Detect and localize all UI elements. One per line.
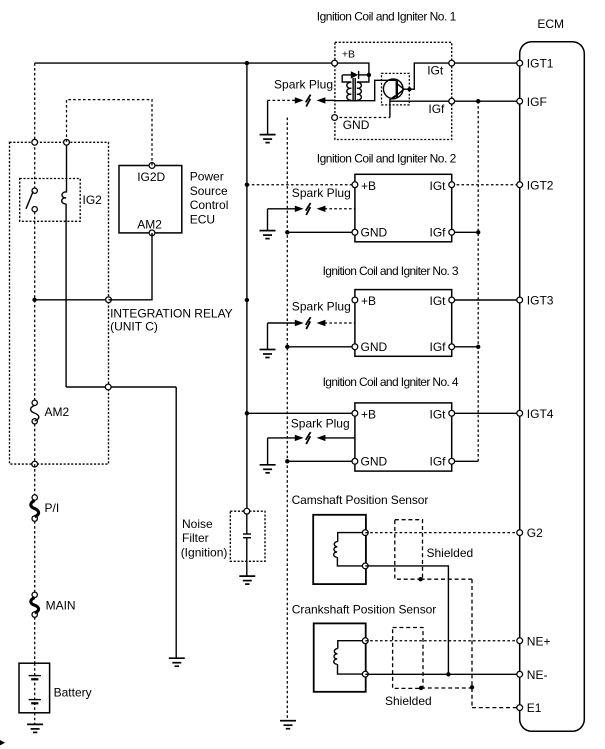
node junction diode cathode [367, 73, 371, 77]
wire IGF [452, 100, 520, 102]
pin crankshaft NE+ [362, 638, 368, 644]
igniter U3 box [355, 290, 452, 357]
wire GND2 [287, 231, 355, 233]
pin ECM E1 [517, 705, 523, 711]
svg-text:IG2D: IG2D [137, 170, 165, 184]
pin ECM NE- [517, 671, 523, 677]
fuse P/I [31, 495, 39, 522]
pin IG2D [149, 163, 155, 169]
igniter U2 box [355, 174, 452, 242]
node junction IGf3 [476, 345, 480, 349]
transistor Q1 [382, 73, 410, 105]
pin AM2 ECU [149, 230, 155, 236]
svg-text:E1: E1 [527, 701, 542, 715]
ground spark plug 3 [260, 350, 276, 358]
battery BAT [19, 663, 50, 713]
crankshaft pickup coil [334, 641, 366, 674]
ground spark plug 2 [260, 231, 276, 239]
svg-text:IGT4: IGT4 [527, 407, 554, 421]
pin +B igniter3 [352, 297, 358, 303]
svg-text:GND: GND [343, 118, 370, 132]
ground battery [27, 724, 43, 732]
svg-text:IGF: IGF [527, 95, 547, 109]
diode D1 [343, 71, 369, 79]
svg-text:GND: GND [361, 225, 388, 239]
pin IGt igniter3 [449, 297, 455, 303]
pin camshaft low [362, 563, 368, 569]
svg-text:IGT3: IGT3 [527, 294, 554, 308]
svg-text:Camshaft Position Sensor: Camshaft Position Sensor [292, 493, 429, 507]
svg-text:Spark Plug: Spark Plug [292, 186, 351, 200]
wire IGT1 [452, 62, 520, 64]
svg-text:Spark Plug: Spark Plug [292, 300, 351, 314]
wire G2 [365, 532, 519, 534]
svg-text:IG2: IG2 [83, 193, 103, 207]
label Noise Filter (Ignition) [181, 517, 228, 560]
relay switch SW [26, 188, 37, 212]
svg-text:Filter: Filter [182, 531, 209, 545]
svg-text:Ignition Coil and Igniter No.: Ignition Coil and Igniter No. 3 [323, 264, 459, 278]
svg-text:IGf: IGf [430, 225, 447, 239]
svg-text:IGt: IGt [430, 294, 447, 308]
wire +B2 [247, 184, 355, 186]
spark plug 2 [268, 186, 355, 231]
svg-text:ECM: ECM [537, 17, 564, 31]
wire secondary to spark plug [335, 80, 397, 100]
wire battery chain upper [34, 63, 36, 464]
wire IGf4 tail [452, 460, 479, 462]
wire IGT3 [452, 299, 520, 301]
igniter U1 box [335, 42, 452, 139]
svg-text:Power: Power [190, 170, 224, 184]
svg-text:NE+: NE+ [527, 634, 551, 648]
node junction GND4 [285, 459, 289, 463]
svg-text:Spark Plug: Spark Plug [291, 417, 350, 431]
pin IGf igniter3 [449, 344, 455, 350]
wire shield to E1 [421, 579, 520, 707]
node junction AM2 switch line [32, 298, 36, 302]
node junction GND3 [285, 345, 289, 349]
spark plug 3 [268, 300, 355, 350]
spark plug 1 [268, 78, 335, 135]
ground spark plug 4 [260, 465, 276, 473]
pin IGt igniter2 [449, 182, 455, 188]
svg-text:Ignition Coil and Igniter No.: Ignition Coil and Igniter No. 2 [317, 152, 457, 166]
wire battery feed top [35, 62, 335, 64]
svg-text:Shielded: Shielded [385, 694, 432, 708]
wire battery chain lower [34, 464, 36, 724]
node junction camshaft shield [418, 577, 422, 581]
crankshaft sensor box [314, 623, 366, 691]
wire IGT2 [452, 184, 520, 186]
svg-text:IGf: IGf [428, 102, 445, 116]
pin ECM IGF [517, 98, 523, 104]
pin ECM G2 [517, 530, 523, 536]
svg-text:IGt: IGt [430, 407, 447, 421]
svg-text:IGT2: IGT2 [527, 178, 554, 192]
pin noise filter [244, 508, 250, 514]
ground noise filter [239, 576, 255, 584]
relay inner box [20, 179, 80, 222]
wire AM2 relay internal [35, 299, 109, 301]
ground spark plug 1 [260, 135, 276, 143]
shield crankshaft [393, 628, 423, 689]
wire NE+ [365, 640, 519, 642]
wire +B4 [247, 412, 355, 414]
wire +B internal igniter1 [335, 63, 369, 75]
node junction GND2 [285, 230, 289, 234]
pin camshaft G2 [362, 530, 368, 536]
svg-text:+B: +B [361, 179, 376, 193]
pin GND igniter3 [352, 344, 358, 350]
node junction +B igniter3 [245, 298, 249, 302]
svg-text:Control: Control [190, 198, 229, 212]
svg-text:Noise: Noise [182, 517, 213, 531]
ground relay coil [169, 658, 185, 666]
pin GND igniter4 [352, 458, 358, 464]
svg-text:+B: +B [361, 294, 376, 308]
pin GND igniter2 [352, 229, 358, 235]
pin IGt igniter1 [449, 60, 455, 66]
label Power Source Control ECU [190, 170, 229, 227]
power source control ECU box [119, 166, 182, 233]
pin GND igniter1 [332, 115, 338, 121]
pin ECM IGT3 [517, 297, 523, 303]
fuse AM2 [31, 400, 39, 424]
svg-text:Battery: Battery [54, 686, 92, 700]
svg-text:Ignition Coil and Igniter No.: Ignition Coil and Igniter No. 1 [317, 10, 457, 24]
svg-text:GND: GND [361, 340, 388, 354]
svg-text:MAIN: MAIN [46, 598, 76, 612]
wire camshaft low [365, 566, 448, 674]
wire GND3 [287, 346, 355, 348]
node junction NE- camshaft low [446, 672, 450, 676]
node junction +B igniter4 [245, 411, 249, 415]
pin ECM IGT4 [517, 410, 523, 416]
noise filter box [230, 511, 265, 561]
wire IGT4 [452, 412, 520, 414]
pin relay bottom [32, 461, 38, 467]
svg-text:IGt: IGt [427, 64, 444, 78]
pin relay AM2 [106, 297, 112, 303]
pin relay coil ground [105, 384, 111, 390]
wire IGf2 tail [452, 231, 479, 233]
pin +B igniter1 [332, 60, 338, 66]
node junction IGF bus [476, 99, 480, 103]
svg-text:ECU: ECU [190, 213, 215, 227]
pin +B igniter2 [352, 182, 358, 188]
svg-text:AM2: AM2 [45, 405, 70, 419]
pin ECM IGT2 [517, 182, 523, 188]
pin IGf igniter2 [449, 229, 455, 235]
capacitor C1 noise filter [243, 514, 251, 576]
wire IG2D dotted [67, 100, 153, 166]
pin relay top switch [32, 139, 38, 145]
ECM U-ECM [520, 17, 585, 731]
wire GND4 [287, 460, 355, 462]
pin crankshaft NE- [362, 671, 368, 677]
node junction shield E1 [470, 685, 474, 689]
integration relay box [10, 142, 109, 464]
pin ECM NE+ [517, 638, 523, 644]
svg-text:INTEGRATION RELAY: INTEGRATION RELAY [110, 306, 233, 320]
pin relay top coil [64, 139, 70, 145]
svg-text:+B: +B [342, 49, 355, 61]
svg-text:IGt: IGt [430, 179, 447, 193]
pin IGf igniter4 [449, 458, 455, 464]
svg-text:(UNIT C): (UNIT C) [110, 320, 158, 334]
pin ECM IGT1 [517, 60, 523, 66]
wire GND1 dotted [335, 117, 390, 119]
page mark bottom left [0, 740, 5, 745]
svg-text:Spark Plug: Spark Plug [274, 78, 333, 92]
node junction +B bus top [245, 61, 249, 65]
wire IGf internal [390, 100, 452, 102]
wire Q1 emitter down [389, 99, 391, 117]
pin +B igniter4 [352, 410, 358, 416]
wire NE- [365, 673, 519, 675]
wire relay coil ground [66, 387, 176, 658]
pin IGt igniter4 [449, 410, 455, 416]
svg-text:IGT1: IGT1 [527, 57, 554, 71]
wire IGF bus vertical [477, 101, 479, 461]
svg-text:IGf: IGf [430, 454, 447, 468]
svg-text:P/I: P/I [45, 501, 60, 515]
shield camshaft [395, 520, 423, 580]
camshaft sensor box [313, 515, 366, 584]
wire IGf3 tail [452, 346, 479, 348]
svg-text:Source: Source [190, 184, 228, 198]
wire IGt internal [404, 63, 452, 89]
wire +B bus vertical [246, 63, 248, 511]
node junction Q1 collector [408, 87, 412, 91]
svg-text:Ignition Coil and Igniter No.: Ignition Coil and Igniter No. 4 [323, 375, 459, 389]
fuse MAIN [31, 592, 39, 617]
svg-text:(Ignition): (Ignition) [181, 546, 228, 560]
svg-text:IGf: IGf [430, 340, 447, 354]
node junction crankshaft shield [419, 686, 423, 690]
svg-text:G2: G2 [527, 526, 543, 540]
svg-text:+B: +B [361, 407, 376, 421]
ignition coil T1 [342, 75, 369, 102]
igniter U4 box [355, 403, 452, 471]
node junction IGf2 [476, 230, 480, 234]
pin IGf igniter1 [449, 98, 455, 104]
svg-text:Crankshaft Position Sensor: Crankshaft Position Sensor [292, 603, 437, 617]
camshaft pickup coil [334, 533, 366, 566]
svg-text:NE-: NE- [527, 668, 548, 682]
ground GND bus bottom [280, 721, 296, 729]
node junction +B igniter2 [245, 183, 249, 187]
svg-text:AM2: AM2 [137, 218, 162, 232]
wire AM2 ECU [109, 233, 153, 300]
svg-text:GND: GND [361, 454, 388, 468]
svg-text:Shielded: Shielded [427, 546, 474, 560]
wire GND bus vertical [286, 118, 288, 721]
spark plug 4 [268, 417, 355, 465]
relay coil IG2 [62, 142, 67, 387]
